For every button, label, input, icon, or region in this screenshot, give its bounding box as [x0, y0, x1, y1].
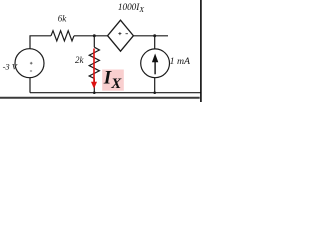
V1 minus sign — [30, 70, 32, 72]
resistor R2 2k — [89, 47, 99, 78]
wire middle branch top — [93, 36, 95, 47]
I_x label highlight box — [102, 70, 124, 91]
I1 arrow head — [152, 54, 158, 63]
I1 arrow shaft — [154, 61, 156, 74]
svg-text:1 mA: 1 mA — [170, 56, 191, 67]
U1 minus sign — [126, 33, 128, 35]
wire right branch top — [154, 36, 156, 49]
wire diamond to end — [133, 35, 168, 37]
wire resistor to diamond — [74, 35, 108, 37]
resistor R1 6k — [51, 31, 74, 41]
current source I1 — [141, 49, 170, 78]
wire top-left segment — [30, 36, 51, 49]
frame bottom border — [0, 97, 200, 99]
wire right branch bottom — [154, 78, 156, 93]
voltage source V1 — [15, 49, 44, 78]
dependent source U1 diamond — [108, 20, 134, 51]
U1 plus sign — [118, 32, 121, 35]
svg-text:X: X — [110, 76, 122, 92]
svg-text:6k: 6k — [58, 14, 68, 24]
wire left source bottom stub — [29, 78, 31, 93]
node junction dot bottom middle — [93, 91, 96, 94]
V1 plus sign — [30, 62, 33, 65]
frame right border — [200, 0, 202, 102]
node junction dot bottom right — [153, 91, 156, 94]
node junction dot top right — [153, 34, 156, 37]
current arrow I_x shaft — [93, 49, 95, 84]
wire middle branch bottom — [93, 78, 95, 92]
svg-text:1000IX: 1000IX — [118, 2, 144, 14]
current arrow I_x head — [91, 82, 97, 89]
wire bottom — [30, 92, 201, 94]
svg-text:-3 V: -3 V — [3, 61, 19, 71]
svg-text:2k: 2k — [75, 55, 85, 65]
node junction dot top middle — [93, 34, 96, 37]
